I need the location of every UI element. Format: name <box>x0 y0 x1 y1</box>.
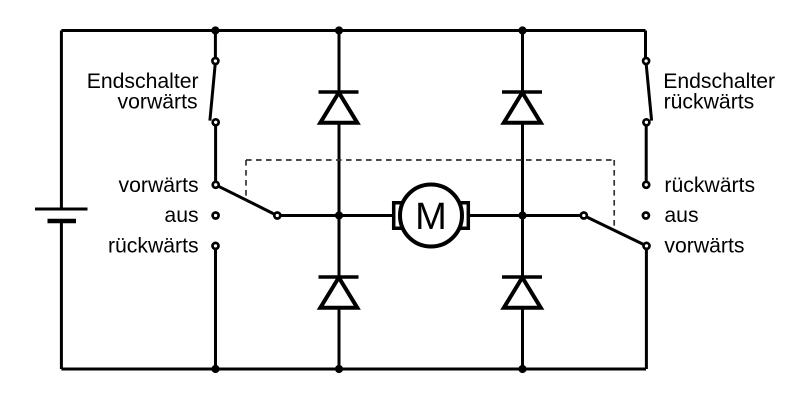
mechanical coupling (dashed link) <box>246 160 614 226</box>
contact right aus <box>643 213 649 219</box>
diode D3 (top right) <box>502 92 542 123</box>
diode D4 (bottom right) <box>502 277 542 308</box>
switch S4 blade (right selector, vorwaerts position) <box>587 217 644 244</box>
pole S3 <box>274 213 280 219</box>
wire motor to right pole <box>468 214 580 217</box>
contact left vorwaerts <box>213 182 219 188</box>
battery B1 negative plate <box>48 219 77 224</box>
svg-text:rückwärts: rückwärts <box>664 91 755 114</box>
wire left side lower (battery to bottom bus) <box>60 221 63 369</box>
junction dot top diode branch right <box>518 26 526 34</box>
svg-text:M: M <box>415 196 447 238</box>
wire right side top (top bus to limit switch) <box>644 31 647 58</box>
wire diode branch left lower <box>338 307 341 369</box>
contact left aus <box>213 213 219 219</box>
contact right rueckwaerts <box>643 182 649 188</box>
wire diode branch left upper <box>338 31 341 93</box>
switch S2 blade (Endschalter rueckwaerts) <box>646 64 651 120</box>
pole S4 <box>581 213 587 219</box>
svg-text:aus: aus <box>164 204 198 227</box>
junction dot bottom left column <box>211 365 219 373</box>
wire top bus <box>61 29 645 32</box>
svg-text:rückwärts: rückwärts <box>108 234 199 257</box>
svg-text:vorwärts: vorwärts <box>118 91 198 114</box>
terminal S1 top <box>212 58 218 64</box>
svg-text:vorwärts: vorwärts <box>119 174 199 197</box>
wire diode branch right lower <box>521 307 524 369</box>
diode D1 (top left) <box>319 92 359 123</box>
junction dot top diode branch left <box>335 26 343 34</box>
wire diode branch right upper <box>521 31 524 93</box>
svg-text:vorwärts: vorwärts <box>664 234 744 257</box>
junction dot top-left <box>211 26 219 34</box>
wire S1 to selector vorwaerts contact <box>214 126 217 182</box>
junction dot middle right branch <box>518 211 526 219</box>
junction dot bottom diode branch left <box>335 365 343 373</box>
junction dot bottom diode branch right <box>518 365 526 373</box>
terminal S2 top <box>643 58 649 64</box>
wire right vorwaerts contact to bottom bus <box>645 249 648 369</box>
wire left side upper (battery to top bus) <box>60 31 63 210</box>
svg-text:rückwärts: rückwärts <box>664 174 755 197</box>
wire bottom bus <box>61 368 646 371</box>
wire left limit-switch column (top bus to switch) <box>214 31 217 58</box>
wire diode branch left middle <box>338 122 341 278</box>
battery B1 positive plate <box>35 208 88 211</box>
wire S2 to selector rueckwaerts contact <box>645 126 648 182</box>
switch S1 blade (Endschalter vorwaerts) <box>210 64 215 120</box>
contact right vorwaerts <box>644 243 650 249</box>
contact left rueckwaerts <box>213 243 219 249</box>
diode D2 (bottom left) <box>319 277 359 308</box>
wire left pole to motor <box>281 214 394 217</box>
motor M body <box>394 185 469 247</box>
terminal S1 bottom <box>213 119 219 125</box>
svg-text:aus: aus <box>664 204 698 227</box>
wire diode branch right middle <box>521 122 524 278</box>
junction dot middle left branch <box>335 211 343 219</box>
wire left rueckwaerts contact to bottom bus <box>214 249 217 369</box>
terminal S2 bottom <box>643 119 649 125</box>
switch S3 blade (left selector, vorwaerts position) <box>219 186 275 214</box>
